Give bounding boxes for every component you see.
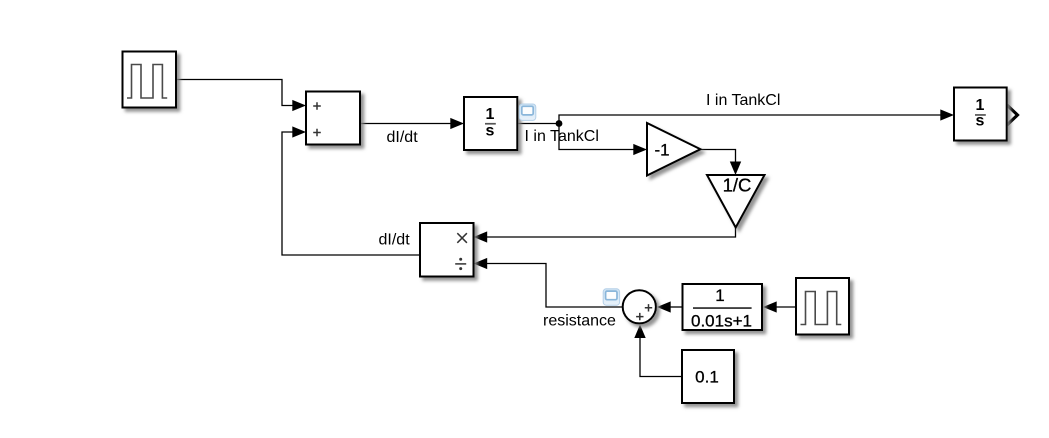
svg-text:s: s [976, 113, 985, 130]
svg-text:0.1: 0.1 [695, 368, 719, 387]
svg-text:1: 1 [715, 286, 724, 305]
svg-text:0.01s+1: 0.01s+1 [691, 311, 752, 330]
svg-text:-1: -1 [654, 141, 669, 160]
svg-text:I in TankCl: I in TankCl [525, 128, 599, 145]
svg-text:I in TankCl: I in TankCl [706, 92, 780, 109]
svg-text:1: 1 [486, 106, 495, 123]
svg-text:dI/dt: dI/dt [379, 231, 411, 248]
svg-text:resistance: resistance [543, 313, 616, 330]
svg-text:1/C: 1/C [723, 175, 752, 196]
svg-text:dI/dt: dI/dt [387, 129, 419, 146]
svg-text:s: s [486, 123, 495, 140]
